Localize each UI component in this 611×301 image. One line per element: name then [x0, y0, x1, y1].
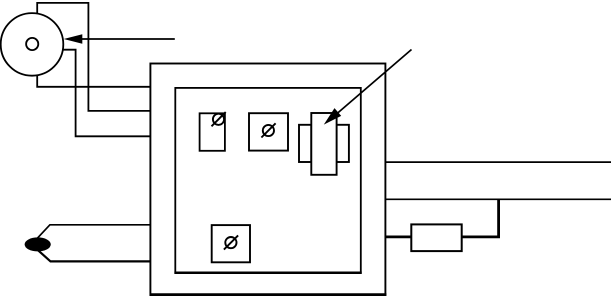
connector left flange	[299, 125, 311, 162]
diameter symbol on square 2	[261, 123, 275, 137]
microphone (filled ellipse)	[25, 237, 51, 251]
wire from resistor to lower output wire	[462, 199, 499, 237]
diameter symbol on square 1	[212, 112, 226, 126]
inner panel	[175, 88, 360, 273]
indicator square 2	[249, 113, 288, 150]
motor M1	[1, 13, 64, 76]
output wire lower	[385, 198, 611, 200]
arrow pointing to connector	[324, 50, 412, 125]
connector body	[311, 113, 336, 175]
output wire upper	[385, 161, 611, 163]
microphone wire lower	[32, 244, 151, 261]
diameter symbol on square 3	[224, 235, 238, 249]
inner panel bottom edge (thick)	[174, 272, 361, 275]
indicator square 3	[212, 225, 250, 262]
microphone wire upper	[32, 225, 151, 245]
control box bottom edge (thick)	[150, 293, 387, 296]
wire top loop from box to motor	[37, 3, 150, 111]
resistor R1	[411, 224, 461, 251]
control box (outer)	[150, 64, 385, 295]
connector right flange	[337, 125, 349, 162]
arrow pointing to motor	[64, 34, 175, 43]
wire from box to resistor	[385, 235, 411, 238]
indicator square 1	[200, 113, 225, 151]
wire from motor right side to box	[61, 50, 150, 137]
